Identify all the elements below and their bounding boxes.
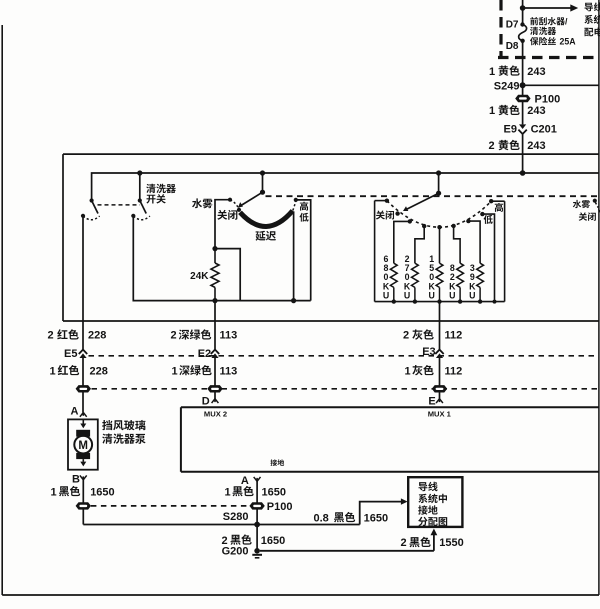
svg-text:G200: G200 xyxy=(222,546,249,558)
svg-text:1: 1 xyxy=(172,365,178,377)
svg-text:A: A xyxy=(70,406,78,418)
label: 高 xyxy=(495,203,503,212)
grommet on pump ground wire xyxy=(76,502,91,509)
wire: S249 branch right xyxy=(523,84,599,86)
svg-text:1550: 1550 xyxy=(439,537,463,549)
wire: high contact to bottom bus xyxy=(296,200,311,301)
svg-text:24K: 24K xyxy=(190,271,209,282)
resistor R5 39K xyxy=(469,263,483,304)
svg-text:D: D xyxy=(202,395,210,407)
svg-text:P100: P100 xyxy=(535,93,561,105)
svg-text:1: 1 xyxy=(489,105,495,117)
dashed bulkhead grommet row xyxy=(92,388,599,390)
wiper arm xyxy=(407,193,439,209)
grommet on red wire xyxy=(76,385,91,392)
svg-text:1: 1 xyxy=(50,365,56,377)
label: 低 xyxy=(484,215,493,224)
wire 243 yellow: C201 to switch xyxy=(522,134,524,173)
wire: delay strip to bottom bus xyxy=(293,211,295,300)
switch contacts xyxy=(385,199,389,203)
svg-text:113: 113 xyxy=(220,365,238,377)
labels: 水雾 关闭 延迟 高 低 xyxy=(192,198,202,208)
svg-text:U: U xyxy=(404,291,410,301)
svg-text:P100: P100 xyxy=(267,501,293,513)
svg-text:C201: C201 xyxy=(531,124,557,136)
fuse: 前刮水器/清洗器保险丝 25A, pins D7/D8 xyxy=(520,22,524,26)
label: 清洗器开关 xyxy=(146,184,155,193)
resistor 24K xyxy=(214,249,216,263)
wire: contact to R5 xyxy=(468,221,480,263)
label: 导线系统配电 (power distribution) xyxy=(585,3,593,12)
svg-text:E2: E2 xyxy=(198,348,211,360)
svg-text:1650: 1650 xyxy=(261,535,285,547)
contact 水雾 xyxy=(228,198,232,202)
svg-text:1: 1 xyxy=(405,365,411,377)
svg-text:E3: E3 xyxy=(422,346,435,358)
rotary speed selector switch xyxy=(438,173,440,193)
svg-text:2: 2 xyxy=(403,330,409,342)
node: 24K resistor bottom junction xyxy=(212,298,217,303)
svg-text:112: 112 xyxy=(445,330,463,342)
node: delay arc drop junction xyxy=(291,298,296,303)
svg-text:1: 1 xyxy=(51,486,57,498)
svg-text:U: U xyxy=(449,291,455,301)
label: 前刮水器/清洗器保险丝 25A xyxy=(530,17,538,25)
right switch fragment 水雾/关闭 xyxy=(573,200,581,208)
wire 243 yellow: fuse to S249 xyxy=(522,41,524,125)
svg-text:2: 2 xyxy=(489,140,495,152)
svg-text:M: M xyxy=(78,440,88,452)
svg-text:S280: S280 xyxy=(223,511,249,523)
mechanical linkage (dashed) xyxy=(266,195,599,197)
label: 接地 (ground pin) xyxy=(270,459,277,466)
svg-text:0.8: 0.8 xyxy=(314,512,329,524)
svg-text:2: 2 xyxy=(171,330,177,342)
svg-text:228: 228 xyxy=(90,365,108,377)
node: feed junction xyxy=(520,5,526,11)
svg-text:E9: E9 xyxy=(504,124,517,136)
wire: low contact to pack bottom xyxy=(482,214,494,302)
resistor R1 680K xyxy=(383,254,397,304)
svg-text:25A: 25A xyxy=(560,37,577,47)
wire 113 dark-green: switch to MUX2 xyxy=(214,301,216,350)
washer pump 挡风玻璃清洗器泵 (motor M) xyxy=(68,419,98,469)
svg-text:112: 112 xyxy=(445,365,463,377)
wire: junction branch to bus xyxy=(215,249,240,301)
svg-text:1: 1 xyxy=(225,486,231,498)
svg-text:1650: 1650 xyxy=(90,486,114,498)
svg-text:D8: D8 xyxy=(506,41,519,52)
svg-text:243: 243 xyxy=(527,140,545,152)
wire 2 black 1550: G200 run to ground distribution xyxy=(260,550,434,552)
node: supply bus junction xyxy=(520,170,526,176)
dashed grommet row xyxy=(91,505,249,507)
contact arc (dashed) xyxy=(387,201,491,228)
svg-text:2: 2 xyxy=(48,330,54,342)
wire: contact to R4 xyxy=(454,226,461,263)
svg-text:113: 113 xyxy=(220,330,238,342)
wire: contact to R1 xyxy=(394,221,410,263)
contact 高 xyxy=(294,198,298,202)
wire 228 red: switch to pump xyxy=(82,358,84,413)
wire 1650 black: pump to splice xyxy=(82,480,84,525)
svg-text:U: U xyxy=(383,291,389,301)
wire: wiper switch leg to bottom bus xyxy=(133,216,310,301)
grommet on gray wire xyxy=(432,385,447,392)
svg-text:243: 243 xyxy=(527,66,545,78)
washer switch 清洗器开关 xyxy=(139,173,141,200)
connector P100 grommet xyxy=(515,95,530,102)
connector P100 grommet xyxy=(249,502,264,509)
wiper arm xyxy=(242,192,263,205)
dashed connector row C2xx xyxy=(89,355,599,357)
svg-text:E5: E5 xyxy=(64,348,77,360)
wire: contact to R2 xyxy=(415,226,424,263)
wire: contact to R3 xyxy=(439,227,441,263)
node: 24K top junction xyxy=(212,246,217,251)
grommet on dark-green wire xyxy=(207,385,222,392)
svg-text:228: 228 xyxy=(88,330,106,342)
svg-text:2: 2 xyxy=(222,535,228,547)
wire: internal supply bus xyxy=(92,173,599,200)
MUX body module box xyxy=(181,406,599,408)
svg-text:1: 1 xyxy=(489,66,495,78)
svg-text:U: U xyxy=(469,291,475,301)
svg-text:B: B xyxy=(72,474,80,486)
contact 关闭 xyxy=(237,208,241,212)
resistor R2 270K xyxy=(404,254,418,304)
wiper/washer switch module box xyxy=(63,153,599,155)
svg-text:E: E xyxy=(428,395,435,407)
wire 1650 black: MUX to splice S280 xyxy=(256,481,258,551)
wire: pump splice run xyxy=(83,524,359,526)
svg-text:D7: D7 xyxy=(506,19,519,30)
ground distribution box 导线系统中接地分配图 xyxy=(408,477,462,527)
delay resistive strip 延迟 xyxy=(240,211,293,227)
label: 关闭 xyxy=(376,211,385,220)
svg-text:1650: 1650 xyxy=(262,486,286,498)
fuse block box (dashed) xyxy=(499,0,502,58)
svg-text:S249: S249 xyxy=(494,81,520,93)
wire 112 gray: resistor pack to MUX1 xyxy=(439,302,441,350)
rotary delay switch (water-mist/off/delay/high/low) xyxy=(262,173,264,192)
svg-text:243: 243 xyxy=(527,105,545,117)
resistor R3 150K xyxy=(429,254,443,304)
resistor pack box xyxy=(374,201,376,302)
wire: feed into fuse block xyxy=(522,0,524,24)
label: 挡风玻璃清洗器泵 xyxy=(102,420,112,430)
wire: arrow to power distribution xyxy=(523,7,571,9)
resistor R4 82K xyxy=(449,263,463,304)
wire 0.8 black 1650 to ground distribution xyxy=(360,502,402,525)
svg-text:U: U xyxy=(429,291,435,301)
svg-text:2: 2 xyxy=(401,537,407,549)
svg-text:A: A xyxy=(241,475,249,487)
svg-text:MUX 1: MUX 1 xyxy=(428,410,452,419)
wire: washer switch to pump feed (red leg) xyxy=(82,216,84,349)
svg-text:1650: 1650 xyxy=(364,512,388,524)
svg-text:MUX 2: MUX 2 xyxy=(204,410,227,419)
